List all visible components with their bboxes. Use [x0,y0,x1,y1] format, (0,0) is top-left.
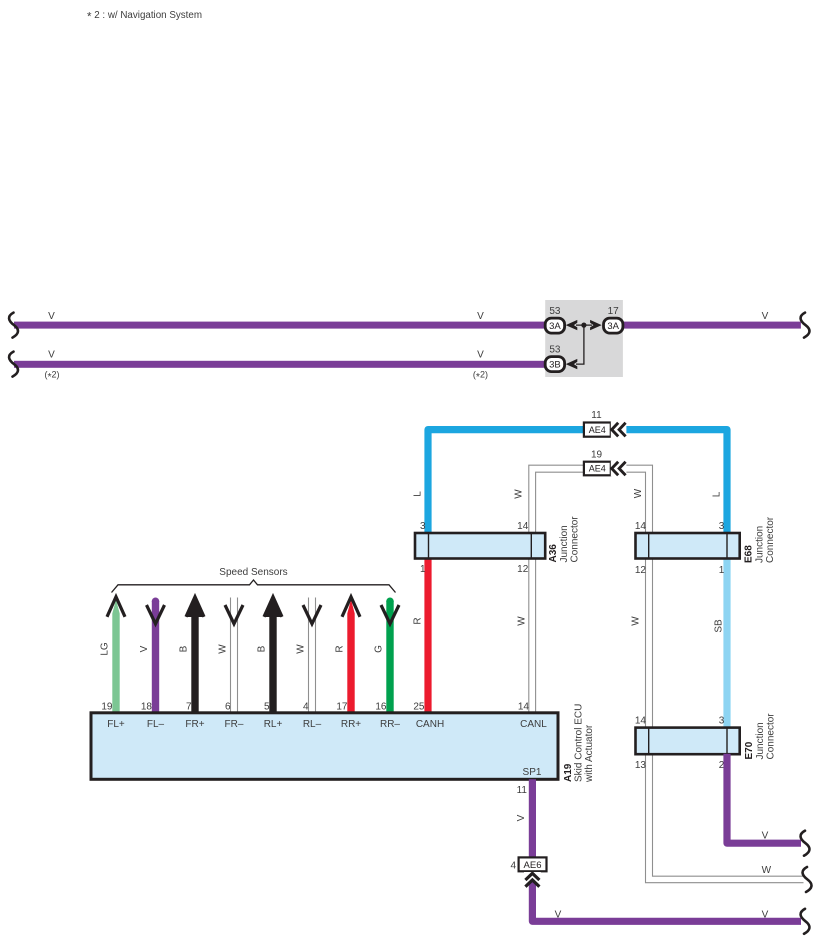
svg-text:W: W [762,865,772,876]
svg-text:(*2): (*2) [44,370,59,383]
wire W E68 pin12 through E70 to right break [646,558,804,883]
svg-text:5: 5 [264,702,270,713]
svg-text:14: 14 [518,702,530,713]
sensor wire W (down) at ECU [308,598,310,714]
svg-text:14: 14 [635,716,647,727]
svg-text:14: 14 [517,521,529,532]
connector 3B (pin 53) [545,357,564,372]
svg-text:RR+: RR+ [341,719,361,730]
svg-text:11: 11 [517,785,528,796]
svg-text:1: 1 [719,565,725,576]
svg-text:19: 19 [591,449,603,460]
wire break left bus2 [9,352,18,377]
wire break V bottom right [801,909,810,934]
svg-text:A19: A19 [563,763,574,782]
wire L (CANH) A36 pin3 to E68 pin3 [428,430,727,534]
wire W (CANL) A36 pin14 to E68 pin14 [529,465,653,534]
wire W CANL drop to ECU pin14 [528,558,530,713]
svg-text:17: 17 [608,306,620,317]
svg-text:3A: 3A [549,321,561,332]
sensor wire G (down) at ECU [386,601,393,713]
svg-text:W: W [630,616,641,626]
svg-text:SP1: SP1 [523,767,542,778]
svg-text:(*2): (*2) [473,370,488,383]
svg-text:CANL: CANL [520,719,547,730]
svg-text:A36: A36 [548,544,559,563]
svg-text:7: 7 [186,702,192,713]
svg-text:V: V [48,349,55,360]
svg-text:V: V [516,814,527,821]
svg-text:AE4: AE4 [589,425,606,435]
svg-text:16: 16 [375,702,387,713]
svg-text:R: R [335,645,346,652]
wire V bus2 segment [14,361,546,368]
svg-text:AE4: AE4 [589,464,606,474]
svg-text:V: V [477,349,484,360]
svg-text:18: 18 [141,702,153,713]
svg-text:14: 14 [635,521,647,532]
connector 3A (pin 17) [604,318,623,333]
svg-text:AE6: AE6 [524,860,542,871]
svg-text:RR–: RR– [380,719,400,730]
connector AE4 pin 19 [584,462,611,476]
wire break left bus1 [9,313,18,338]
svg-text:W: W [517,616,528,626]
svg-text:12: 12 [517,564,529,575]
sensor wire B (up) at ECU [187,597,203,713]
arrow into 3A pin 17 [590,320,602,330]
wire SB E68 pin1 to E70 pin3 [723,558,730,728]
svg-text:SB: SB [714,619,725,633]
chevrons AE4 pin19 [611,461,627,477]
svg-text:V: V [762,311,769,322]
svg-text:13: 13 [635,760,647,771]
svg-text:FL–: FL– [147,719,165,730]
svg-text:11: 11 [591,410,602,421]
junction connector E70 [636,728,740,755]
svg-text:B: B [257,645,268,652]
svg-text:Connector: Connector [569,516,580,563]
svg-text:RL+: RL+ [264,719,283,730]
sensor wire LG (up) at ECU [112,600,119,714]
svg-text:V: V [139,645,150,652]
svg-text:V: V [48,311,55,322]
svg-text:4: 4 [303,702,309,713]
junction connector A36 [415,533,545,559]
wire break right bus1 [801,313,810,338]
svg-text:FR–: FR– [225,719,244,730]
svg-text:CANH: CANH [416,719,444,730]
svg-text:4: 4 [510,860,516,871]
svg-text:W: W [633,488,644,498]
svg-text:53: 53 [549,345,561,356]
svg-text:25: 25 [413,702,425,713]
svg-text:E70: E70 [744,741,755,759]
connector AE6 pin 4 [519,857,547,871]
splice junction node [581,323,586,328]
arrow into 3A pin 53 [566,320,578,330]
sensor wire V (down) at ECU [152,601,159,713]
splice link wires [576,325,592,364]
svg-text:L: L [413,491,424,497]
svg-text:FL+: FL+ [107,719,125,730]
svg-text:W: W [296,644,307,654]
svg-text:LG: LG [100,642,111,656]
wire R CANH drop to ECU pin25 [424,558,431,713]
splice area (grey) [545,300,623,377]
junction connector E68 [636,533,740,559]
svg-text:W: W [514,489,525,499]
svg-text:Speed Sensors: Speed Sensors [219,567,287,578]
svg-text:with Actuator: with Actuator [584,724,595,783]
wire break V right [801,831,810,856]
svg-text:E68: E68 [744,545,755,563]
svg-text:L: L [712,491,723,497]
arrow into 3B pin 53 [566,359,578,369]
wire V bus1 right segment [623,322,801,329]
svg-text:V: V [762,909,769,920]
connector 3A (pin 53) [545,318,564,333]
svg-text:V: V [477,311,484,322]
wire V ECU pin11 via AE6 to bottom bus [532,779,801,921]
svg-text:17: 17 [336,702,348,713]
svg-text:3: 3 [719,716,725,727]
speed sensors brace [112,580,396,593]
svg-text:W: W [218,644,229,654]
svg-text:G: G [374,645,385,653]
svg-text:Connector: Connector [765,516,776,563]
svg-text:V: V [555,909,562,920]
svg-text:3B: 3B [549,359,561,370]
svg-text:19: 19 [101,702,113,713]
svg-text:Connector: Connector [765,713,776,760]
sensor wire R (up) at ECU [347,600,354,714]
svg-text:3: 3 [420,521,426,532]
svg-text:1: 1 [420,564,426,575]
ECU A19 Skid Control ECU with Actuator [91,713,558,780]
wire V bus1 left segment [14,322,546,329]
chevrons AE6 [524,872,541,882]
wire V E70 pin2 to right break [727,754,801,843]
sensor wire B (up) at ECU [265,597,281,713]
svg-text:V: V [762,831,769,842]
svg-text:RL–: RL– [303,719,322,730]
connector AE4 pin 11 [584,423,611,437]
svg-text:R: R [413,617,424,624]
chevrons AE4 pin11 [611,421,627,438]
svg-text:B: B [179,645,190,652]
svg-text:3A: 3A [607,321,619,332]
sensor wire W (down) at ECU [230,598,232,714]
svg-text:* 2 : w/ Navigation System: * 2 : w/ Navigation System [87,10,202,23]
svg-text:FR+: FR+ [185,719,204,730]
svg-text:53: 53 [549,306,561,317]
wire break W right [803,867,812,892]
svg-text:12: 12 [635,565,647,576]
svg-text:6: 6 [225,702,231,713]
svg-text:3: 3 [719,521,725,532]
